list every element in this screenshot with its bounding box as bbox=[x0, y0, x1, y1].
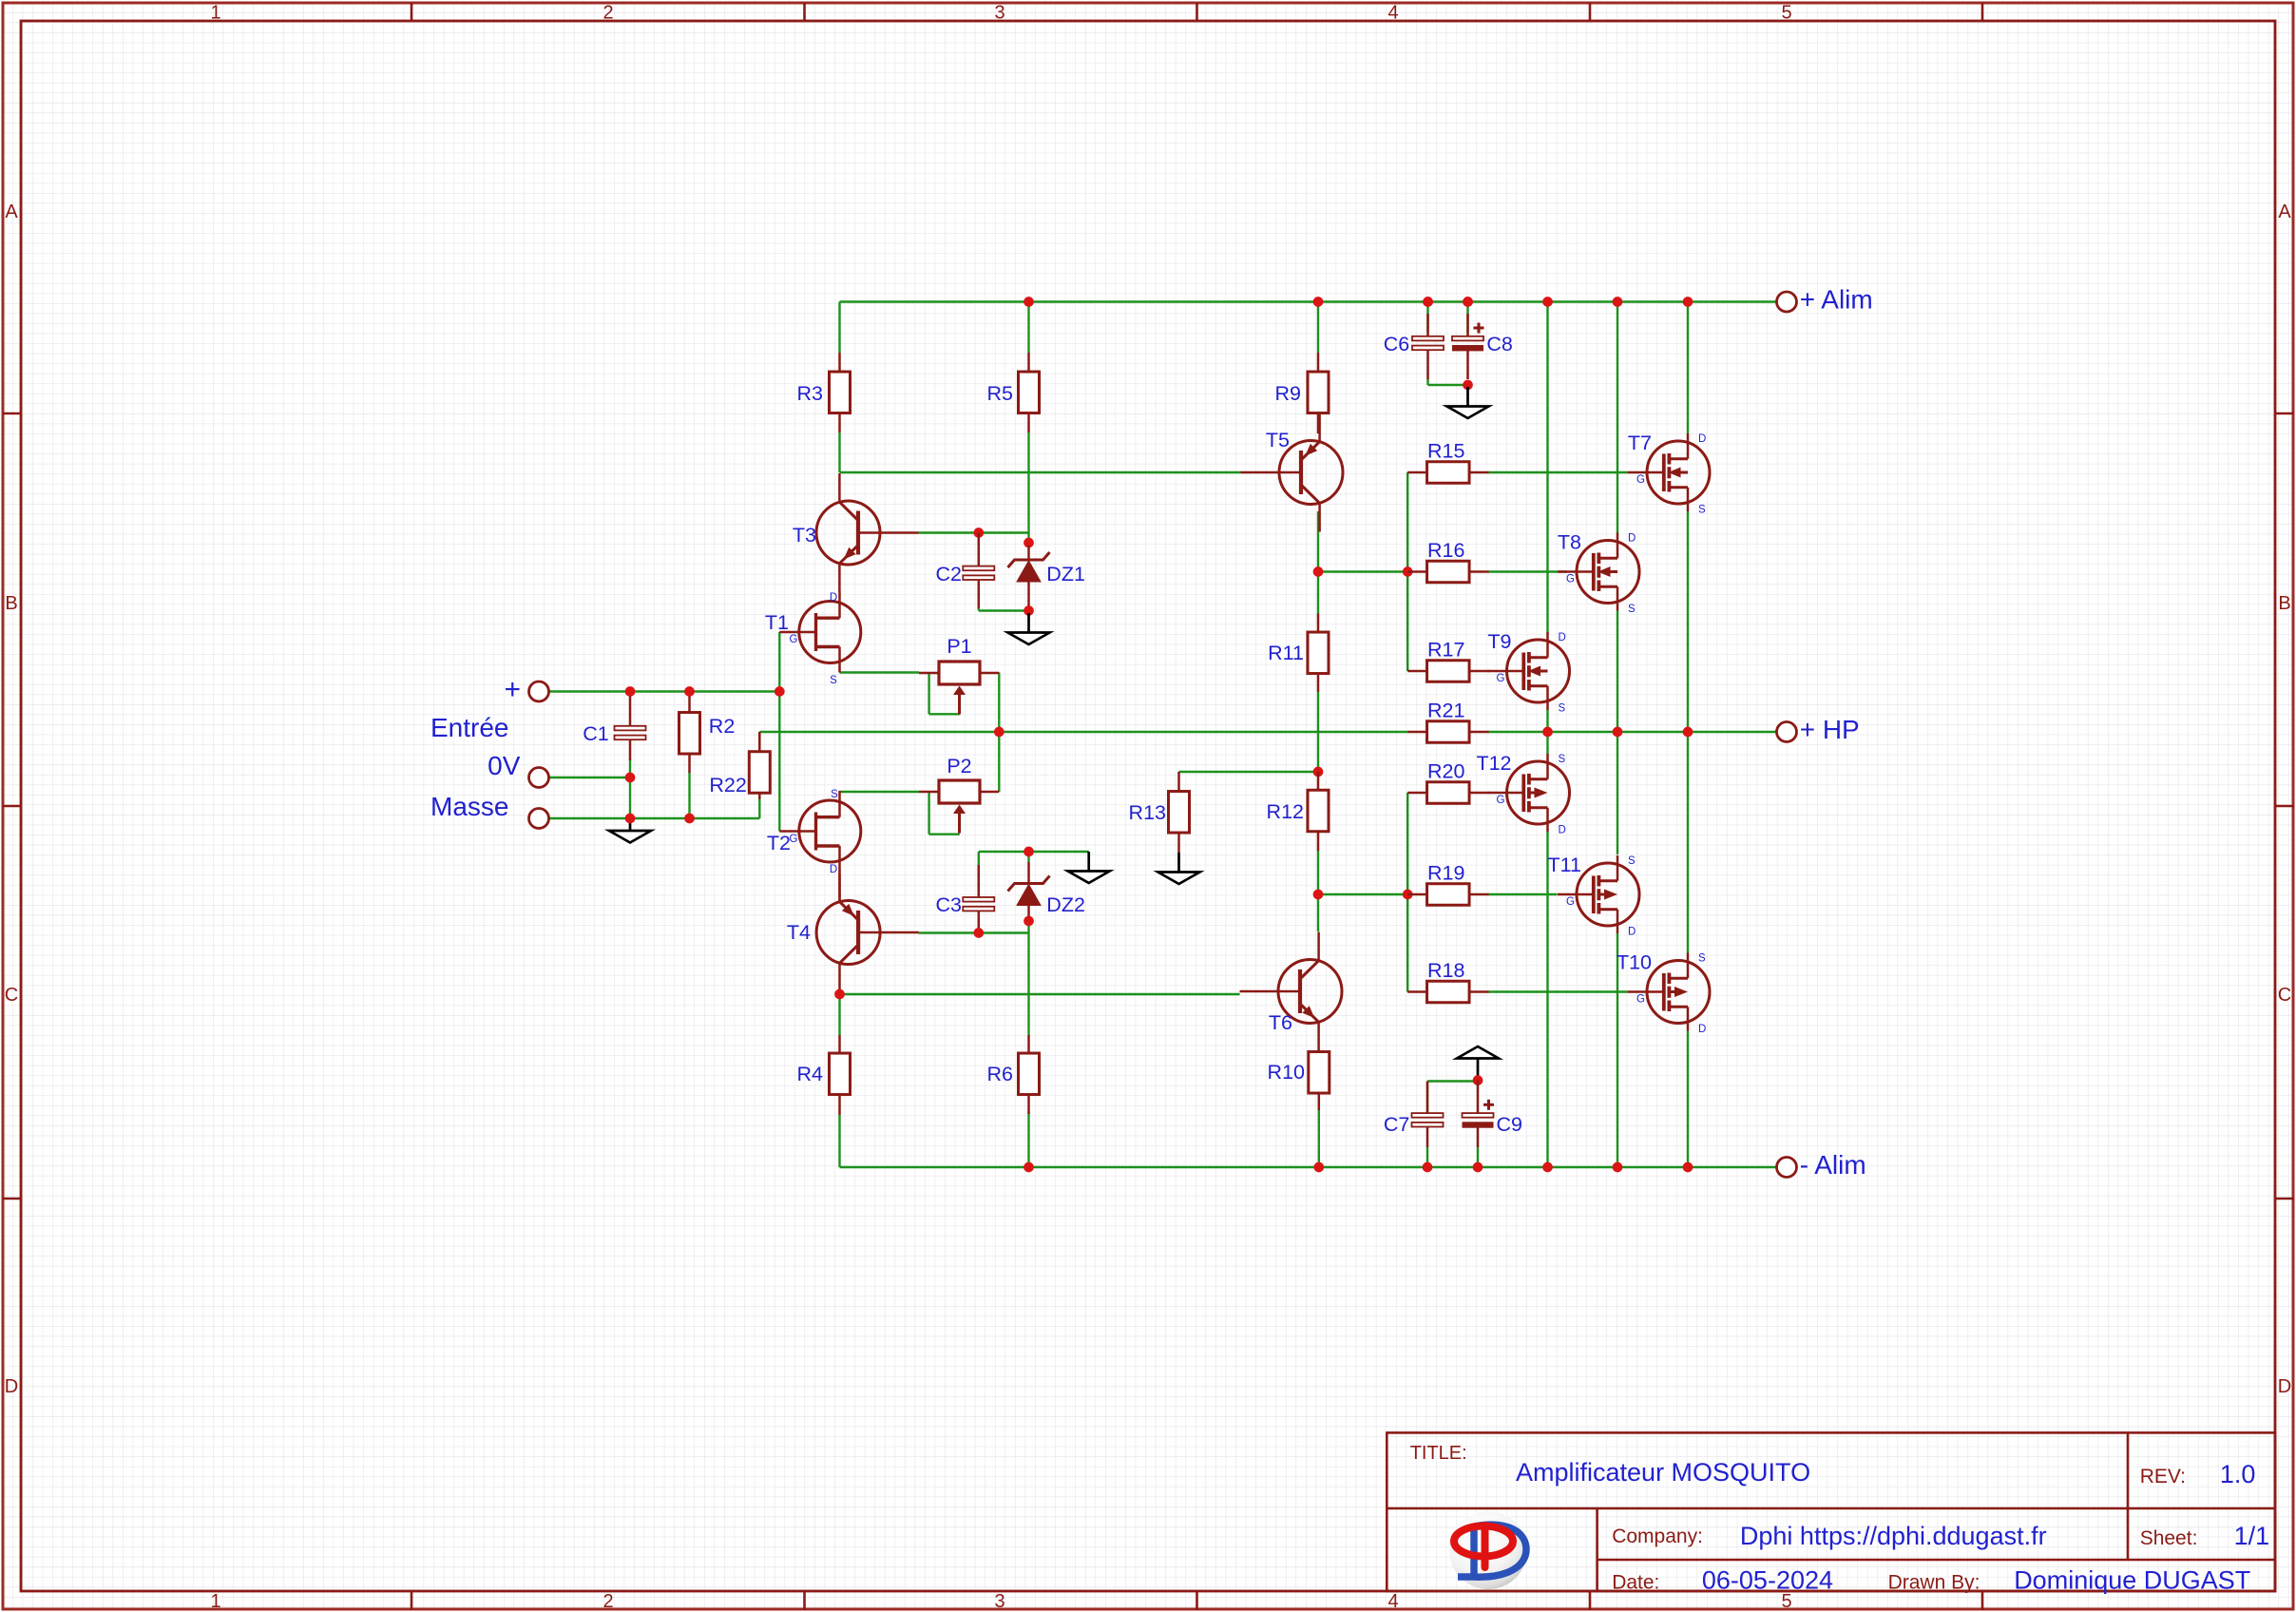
svg-text:Entrée: Entrée bbox=[430, 713, 509, 742]
svg-text:4: 4 bbox=[1387, 3, 1398, 24]
svg-text:D: D bbox=[1698, 1024, 1706, 1035]
svg-text:R17: R17 bbox=[1427, 639, 1464, 662]
svg-text:R11: R11 bbox=[1268, 642, 1304, 664]
svg-text:D: D bbox=[5, 1376, 18, 1397]
svg-text:C9: C9 bbox=[1497, 1113, 1522, 1136]
svg-text:S: S bbox=[1628, 604, 1636, 615]
svg-text:R5: R5 bbox=[987, 382, 1014, 405]
svg-text:T3: T3 bbox=[793, 524, 816, 547]
svg-text:C2: C2 bbox=[936, 563, 962, 585]
svg-text:T8: T8 bbox=[1558, 531, 1581, 554]
svg-text:T6: T6 bbox=[1269, 1011, 1292, 1034]
svg-text:T9: T9 bbox=[1487, 630, 1511, 653]
svg-text:R3: R3 bbox=[797, 382, 824, 405]
svg-text:S: S bbox=[830, 675, 837, 686]
svg-text:0V: 0V bbox=[488, 751, 521, 780]
svg-text:DZ1: DZ1 bbox=[1046, 563, 1085, 585]
svg-text:R19: R19 bbox=[1427, 862, 1464, 885]
svg-text:S: S bbox=[1559, 754, 1566, 765]
svg-text:G: G bbox=[1566, 896, 1575, 908]
svg-text:3: 3 bbox=[994, 3, 1004, 24]
svg-text:G: G bbox=[790, 634, 798, 645]
svg-text:+: + bbox=[504, 674, 521, 705]
svg-text:D: D bbox=[1559, 632, 1566, 643]
svg-text:R18: R18 bbox=[1427, 959, 1464, 982]
svg-text:1: 1 bbox=[210, 3, 220, 24]
svg-text:G: G bbox=[790, 834, 798, 845]
svg-text:Drawn By:: Drawn By: bbox=[1888, 1572, 1980, 1594]
svg-text:R22: R22 bbox=[709, 774, 746, 796]
svg-text:R12: R12 bbox=[1267, 800, 1304, 823]
svg-text:T11: T11 bbox=[1548, 854, 1581, 876]
svg-text:Date:: Date: bbox=[1612, 1572, 1659, 1594]
svg-text:T12: T12 bbox=[1476, 752, 1511, 775]
svg-text:T1: T1 bbox=[765, 611, 789, 634]
svg-text:D: D bbox=[1628, 533, 1636, 545]
svg-text:T7: T7 bbox=[1628, 432, 1652, 454]
svg-text:5: 5 bbox=[1781, 3, 1791, 24]
svg-text:R16: R16 bbox=[1427, 539, 1464, 562]
svg-text:B: B bbox=[2278, 593, 2290, 614]
svg-text:A: A bbox=[2278, 201, 2291, 222]
svg-text:+ HP: + HP bbox=[1800, 715, 1860, 744]
svg-text:C8: C8 bbox=[1486, 333, 1513, 355]
svg-text:2: 2 bbox=[603, 3, 613, 24]
svg-text:G: G bbox=[1636, 474, 1645, 486]
svg-text:2: 2 bbox=[603, 1591, 613, 1612]
svg-text:Sheet:: Sheet: bbox=[2140, 1527, 2198, 1549]
svg-text:C: C bbox=[5, 985, 18, 1006]
svg-text:- Alim: - Alim bbox=[1800, 1150, 1866, 1180]
svg-text:R6: R6 bbox=[987, 1063, 1014, 1085]
svg-text:S: S bbox=[1559, 703, 1566, 715]
svg-text:Company:: Company: bbox=[1612, 1526, 1703, 1547]
svg-text:T4: T4 bbox=[787, 921, 811, 944]
svg-text:G: G bbox=[1497, 795, 1505, 806]
svg-text:D: D bbox=[1559, 825, 1566, 836]
svg-text:S: S bbox=[1698, 953, 1706, 965]
svg-text:06-05-2024: 06-05-2024 bbox=[1702, 1566, 1833, 1595]
svg-text:P1: P1 bbox=[947, 635, 971, 658]
svg-text:S: S bbox=[1698, 505, 1706, 516]
svg-text:D: D bbox=[1628, 927, 1636, 938]
svg-text:D: D bbox=[830, 592, 837, 604]
svg-text:Dominique DUGAST: Dominique DUGAST bbox=[2014, 1566, 2250, 1595]
svg-text:D: D bbox=[830, 864, 837, 875]
svg-text:1/1: 1/1 bbox=[2234, 1522, 2270, 1550]
svg-text:S: S bbox=[1628, 855, 1636, 867]
svg-text:R21: R21 bbox=[1427, 700, 1464, 722]
svg-text:Amplificateur MOSQUITO: Amplificateur MOSQUITO bbox=[1516, 1458, 1810, 1487]
svg-text:1.0: 1.0 bbox=[2220, 1460, 2256, 1488]
svg-text:G: G bbox=[1566, 574, 1575, 585]
svg-text:Masse: Masse bbox=[430, 792, 508, 821]
svg-text:C7: C7 bbox=[1384, 1113, 1409, 1136]
svg-text:+ Alim: + Alim bbox=[1800, 285, 1873, 315]
svg-text:R4: R4 bbox=[797, 1063, 824, 1085]
svg-text:P2: P2 bbox=[947, 755, 971, 777]
svg-text:R9: R9 bbox=[1275, 382, 1301, 405]
svg-text:G: G bbox=[1636, 994, 1645, 1006]
svg-text:R20: R20 bbox=[1427, 760, 1464, 783]
svg-text:A: A bbox=[5, 201, 18, 222]
svg-text:R13: R13 bbox=[1129, 801, 1166, 824]
svg-text:C3: C3 bbox=[936, 893, 963, 916]
svg-text:REV:: REV: bbox=[2140, 1466, 2186, 1487]
svg-text:R2: R2 bbox=[709, 715, 735, 738]
svg-text:R15: R15 bbox=[1427, 440, 1464, 463]
svg-text:C: C bbox=[2278, 985, 2291, 1006]
svg-text:DZ2: DZ2 bbox=[1046, 893, 1085, 916]
svg-text:T2: T2 bbox=[767, 832, 791, 854]
svg-text:D: D bbox=[1698, 433, 1706, 445]
svg-text:C1: C1 bbox=[583, 722, 608, 745]
svg-text:D: D bbox=[2278, 1376, 2291, 1397]
svg-text:1: 1 bbox=[210, 1591, 220, 1612]
svg-text:B: B bbox=[5, 593, 17, 614]
svg-text:C6: C6 bbox=[1384, 333, 1410, 355]
svg-text:Dphi https://dphi.ddugast.fr: Dphi https://dphi.ddugast.fr bbox=[1740, 1522, 2047, 1550]
svg-text:3: 3 bbox=[994, 1591, 1004, 1612]
svg-text:T10: T10 bbox=[1617, 951, 1652, 974]
svg-text:4: 4 bbox=[1387, 1591, 1398, 1612]
svg-text:T5: T5 bbox=[1266, 429, 1290, 451]
svg-text:G: G bbox=[1497, 673, 1505, 684]
svg-text:TITLE:: TITLE: bbox=[1410, 1443, 1467, 1464]
svg-text:R10: R10 bbox=[1268, 1061, 1305, 1084]
svg-text:S: S bbox=[831, 789, 838, 800]
